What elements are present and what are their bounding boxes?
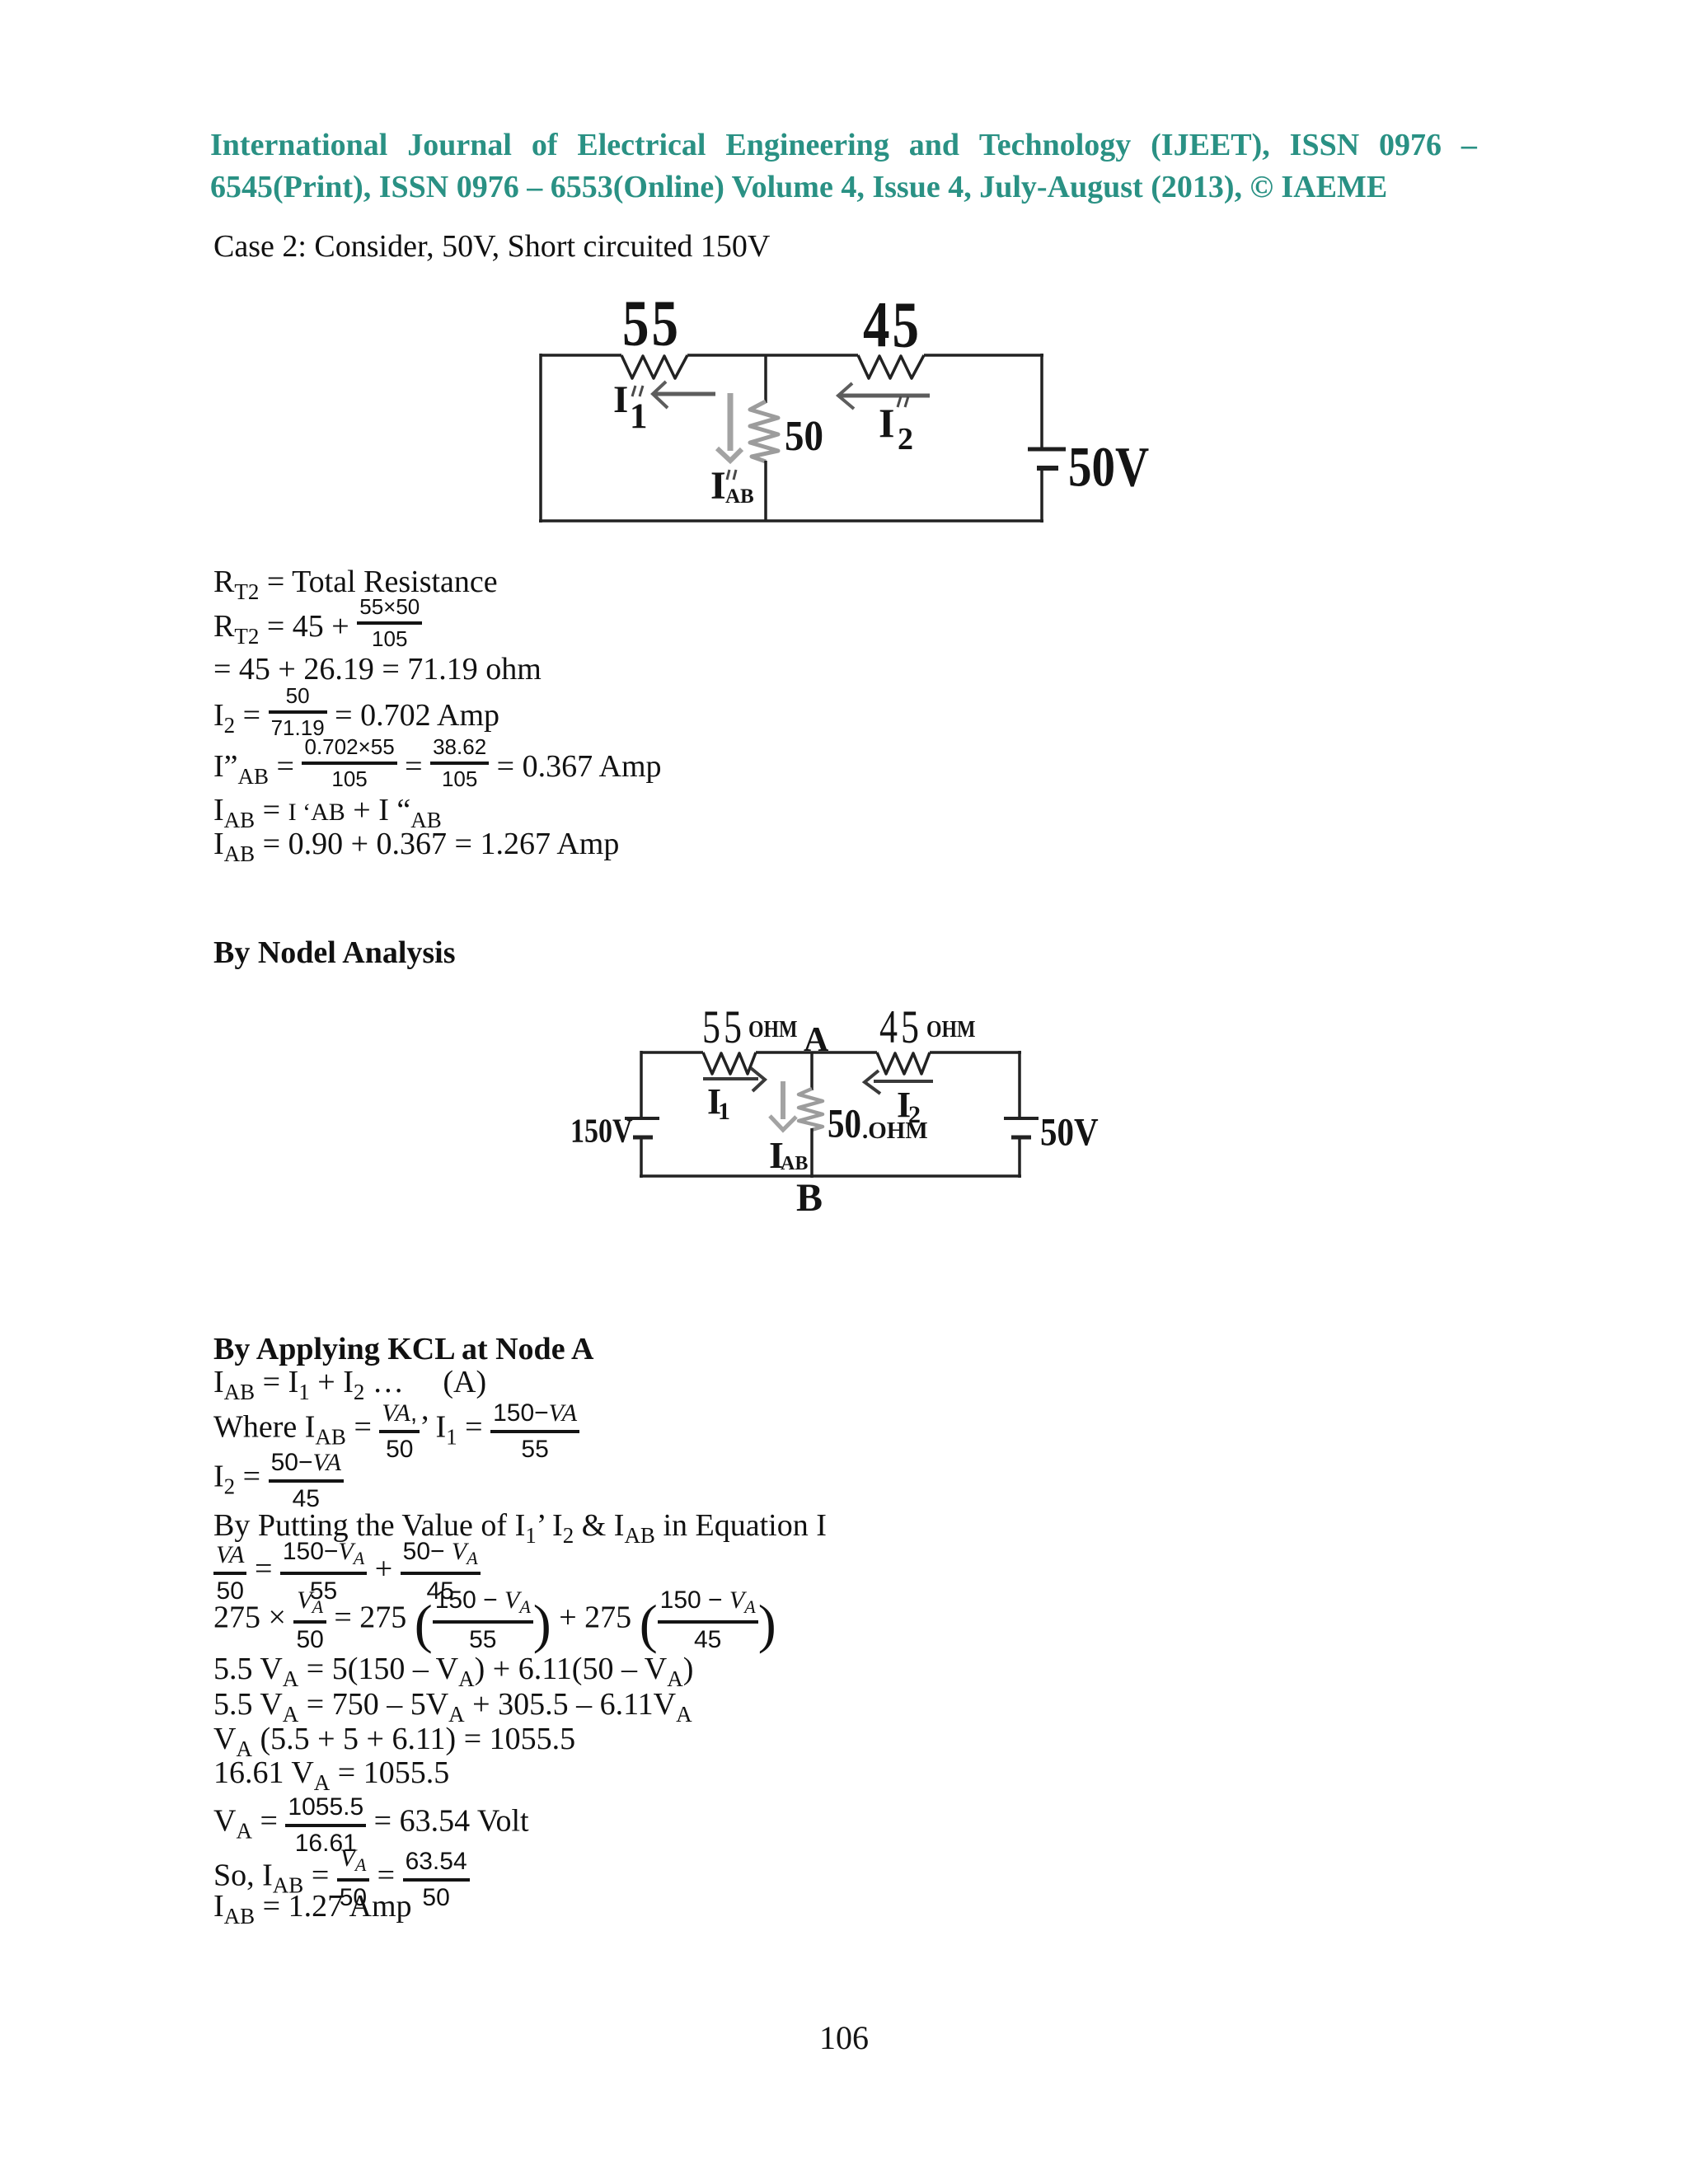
wire top-middle segment	[756, 1051, 877, 1054]
label 50 (circuit 1 middle resistor)	[785, 415, 823, 458]
section heading	[213, 952, 456, 954]
wire top-left segment	[641, 1051, 703, 1054]
journal header line 1	[210, 129, 1477, 162]
resistor 55	[621, 355, 687, 378]
wire bottom	[539, 519, 1043, 523]
label 55 (circuit 1)	[622, 292, 681, 357]
circuit 1 schematic	[495, 280, 1170, 544]
node label B	[796, 1179, 823, 1218]
wire right side lower	[1040, 470, 1043, 523]
label I2	[897, 1087, 911, 1123]
label 55 OHM (circuit 2)	[702, 1004, 745, 1051]
wire left side upper	[640, 1051, 643, 1118]
wire right side upper	[1040, 354, 1043, 448]
label 150V (circuit 2 left battery)	[570, 1115, 633, 1149]
label I''1	[613, 381, 628, 419]
wire right side lower	[1018, 1139, 1021, 1178]
resistor 45	[858, 355, 924, 378]
wire top-left segment	[541, 354, 621, 357]
wire middle branch upper (node A)	[810, 1052, 814, 1090]
wire right side upper	[1018, 1051, 1021, 1118]
label 50V (circuit 1 battery)	[1068, 439, 1149, 495]
label IAB (circuit 2)	[769, 1137, 784, 1174]
resistor 45 OHM	[877, 1052, 930, 1074]
prime marks of I''AB	[727, 470, 736, 480]
current arrow IAB (down, gray)	[770, 1081, 796, 1130]
wire top-right segment	[924, 354, 1043, 357]
current arrow I2 (left)	[865, 1071, 933, 1094]
KCL heading	[213, 1348, 593, 1350]
label I''AB	[710, 466, 726, 506]
battery 50V long plate	[1028, 448, 1066, 452]
label I1	[707, 1084, 721, 1120]
label 50 OHM (circuit 2 middle)	[828, 1103, 861, 1144]
wire left side lower	[640, 1139, 643, 1178]
resistor 50 (gray coil)	[750, 401, 778, 462]
resistor 50 OHM (gray coil)	[799, 1089, 823, 1130]
current arrow I1 (right)	[703, 1068, 765, 1091]
battery 50V long plate	[1004, 1117, 1039, 1120]
prime marks of I''1	[632, 386, 643, 396]
journal header line 2	[210, 171, 1477, 204]
wire top-right segment	[930, 1051, 1021, 1054]
wire top-middle segment	[687, 354, 858, 357]
battery 150V short plate	[633, 1136, 653, 1140]
node label A	[804, 1023, 828, 1057]
case title	[213, 246, 770, 247]
resistor 55 OHM	[703, 1052, 756, 1074]
page number	[0, 2037, 1688, 2039]
wire middle branch lower (node B)	[810, 1128, 814, 1178]
label I''2	[879, 402, 894, 443]
equations block 1	[213, 582, 498, 592]
current arrow I''1 (left)	[653, 382, 715, 408]
circuit 2 schematic	[544, 1005, 1121, 1228]
wire middle branch upper	[764, 355, 767, 403]
label 45 OHM (circuit 2)	[879, 1004, 922, 1051]
current arrow I''AB (down, gray)	[717, 393, 742, 461]
battery 50V short plate	[1037, 466, 1058, 471]
wire bottom	[640, 1174, 1021, 1178]
current arrow I''2 (left)	[838, 383, 930, 409]
battery 150V long plate	[625, 1117, 659, 1120]
label 45 (circuit 1)	[863, 293, 921, 359]
prime marks of I''2	[898, 396, 908, 407]
wire middle branch lower	[764, 461, 767, 521]
wire left side	[539, 354, 542, 523]
label 50V (circuit 2 right battery)	[1040, 1113, 1099, 1152]
battery 50V short plate	[1011, 1136, 1031, 1140]
